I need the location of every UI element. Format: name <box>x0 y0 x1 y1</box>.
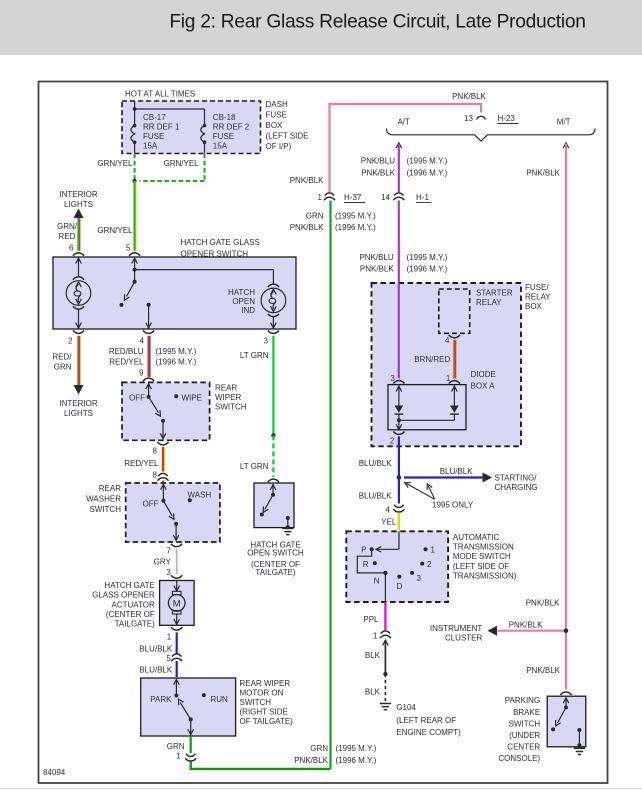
wire PNK/BLU A/T branch upper <box>396 143 402 192</box>
label GRN/YEL at pin 5 <box>97 226 133 235</box>
svg-text:HATCH: HATCH <box>228 288 255 297</box>
label REAR WASHER SWITCH <box>86 484 121 514</box>
svg-text:BRAKE: BRAKE <box>513 708 540 717</box>
svg-text:LT GRN: LT GRN <box>240 351 269 360</box>
contact WIPE <box>174 394 202 403</box>
svg-text:7: 7 <box>166 547 171 556</box>
label GRN/RED <box>57 222 78 241</box>
fuse/relay box <box>372 283 522 446</box>
svg-text:TAILGATE): TAILGATE) <box>115 620 155 629</box>
contact RUN <box>202 693 228 704</box>
junction node GRN/YEL <box>132 179 136 183</box>
svg-text:YEL: YEL <box>381 518 397 527</box>
svg-text:RELAY: RELAY <box>476 298 502 307</box>
label INSTRUMENT CLUSTER <box>430 624 483 643</box>
svg-text:TRANSMISSION): TRANSMISSION) <box>453 571 517 580</box>
label GRN/YEL left <box>97 159 133 168</box>
pin 6 label <box>69 244 74 253</box>
svg-text:PNK/BLK: PNK/BLK <box>526 666 560 675</box>
label REAR WIPER SWITCH <box>215 384 247 412</box>
wiper switch internals <box>146 384 166 439</box>
pin 6 connector arc <box>73 253 84 256</box>
svg-text:FUSE: FUSE <box>143 132 164 141</box>
label RED/GRN <box>52 353 72 372</box>
svg-text:GRN: GRN <box>306 212 324 221</box>
label BRN/RED <box>414 355 450 364</box>
arrow to interior lights (down) <box>74 385 84 395</box>
svg-text:SWITCH: SWITCH <box>240 698 272 707</box>
lamp HATCH OPEN IND <box>261 284 286 328</box>
label GRN PNK/BLK with years bottom <box>294 744 376 765</box>
inline connector 14 H-1 <box>381 193 431 203</box>
wire LT GRN from pin 3 <box>272 336 274 436</box>
svg-text:CB-18: CB-18 <box>213 113 236 122</box>
svg-text:STARTER: STARTER <box>476 289 513 298</box>
hatch gate open switch box <box>254 483 294 528</box>
svg-text:CB-17: CB-17 <box>143 113 166 122</box>
circuit breaker CB-18 RR DEF 2 FUSE 15A <box>201 113 250 153</box>
hatch gate glass opener switch box <box>53 257 296 329</box>
wire RED/YEL into washer switch <box>163 481 164 483</box>
svg-text:OF TAILGATE): OF TAILGATE) <box>240 717 294 726</box>
svg-text:PNK/BLU: PNK/BLU <box>361 157 395 166</box>
svg-text:CENTER: CENTER <box>507 742 540 751</box>
wire BRN/RED <box>454 340 455 379</box>
label AUTOMATIC TRANSMISSION MODE SWITCH (LEFT SIDE OF TRANSMISSION) <box>453 533 517 580</box>
svg-text:1: 1 <box>176 752 181 761</box>
svg-text:BLK: BLK <box>365 688 381 697</box>
svg-text:PNK/BLK: PNK/BLK <box>294 756 328 765</box>
svg-text:WIPE: WIPE <box>182 394 202 403</box>
diode box A pin 3 connector <box>390 374 404 384</box>
dash fuse box <box>122 101 261 154</box>
svg-text:13: 13 <box>464 114 473 123</box>
label INTERIOR LIGHTS bottom <box>59 399 97 418</box>
wire PNK/BLU A/T branch middle <box>398 201 400 285</box>
inline connector 5 <box>166 654 182 663</box>
wire BLK dashed <box>384 674 386 702</box>
bus wire inside fuse box <box>133 101 205 126</box>
wire BLU/BLK to starting/charging <box>404 476 483 478</box>
svg-text:CHARGING: CHARGING <box>495 483 538 492</box>
svg-text:3: 3 <box>417 574 422 583</box>
svg-text:GRN: GRN <box>310 744 328 753</box>
label GRN/YEL right <box>164 159 200 168</box>
svg-text:INSTRUMENT: INSTRUMENT <box>430 624 483 633</box>
svg-text:RED/: RED/ <box>52 353 72 362</box>
mode switch P-N linkage <box>357 549 385 573</box>
wire PNK/BLK M/T branch <box>563 143 569 689</box>
svg-text:BOX A: BOX A <box>471 382 496 391</box>
svg-text:(CENTER OF: (CENTER OF <box>106 610 155 619</box>
svg-text:PNK/BLK: PNK/BLK <box>526 169 560 178</box>
label G104 (LEFT REAR OF ENGINE COMPT) <box>396 703 461 737</box>
svg-text:RUN: RUN <box>211 695 229 704</box>
pin 2 label and connector <box>68 331 84 346</box>
svg-text:(RIGHT SIDE: (RIGHT SIDE <box>240 708 288 717</box>
ground below hatch gate open switch <box>282 528 293 534</box>
svg-text:DIODE: DIODE <box>471 370 496 379</box>
svg-text:LIGHTS: LIGHTS <box>64 409 93 418</box>
svg-text:D: D <box>397 582 403 591</box>
svg-text:RED: RED <box>59 232 76 241</box>
wire LT GRN dashed <box>272 435 274 477</box>
svg-text:OPEN: OPEN <box>232 297 255 306</box>
svg-text:GRN/YEL: GRN/YEL <box>164 159 200 168</box>
wire RED/YEL to connector 8 <box>163 447 164 472</box>
label PNK/BLK left of connector H-37 <box>290 176 324 185</box>
pin 1 connector below actuator <box>167 627 183 641</box>
label PNK/BLK M/T branch <box>526 169 560 178</box>
wire GRN/YEL to switch pin 5 <box>135 181 136 251</box>
svg-text:M/T: M/T <box>557 118 571 127</box>
svg-text:H-37: H-37 <box>344 193 362 202</box>
svg-text:GRY: GRY <box>154 558 172 567</box>
label BLU/BLK below junction <box>359 492 393 501</box>
hatch gate open switch internals <box>260 484 276 516</box>
svg-text:R: R <box>363 560 369 569</box>
wire GRN/RED to pin 6 <box>79 218 80 251</box>
label RED/YEL <box>124 459 159 468</box>
pin 5 label <box>126 244 131 253</box>
inline connector 8 <box>153 471 169 481</box>
svg-text:(LEFT REAR OF: (LEFT REAR OF <box>396 716 456 725</box>
label BLU/BLK horizontal <box>440 467 474 476</box>
svg-text:LIGHTS: LIGHTS <box>64 200 93 209</box>
wire PNK/BLU inside fuse/relay box <box>398 284 400 379</box>
wire PNK/BLK top run <box>330 104 482 192</box>
inline connector 13 H-23 <box>464 114 518 124</box>
opener switch pin 6 internal wire and lamp <box>66 258 91 329</box>
svg-text:(UNDER: (UNDER <box>509 731 540 740</box>
svg-text:ENGINE COMPT): ENGINE COMPT) <box>396 728 461 737</box>
label PPL <box>363 615 379 624</box>
wire BLU/BLK from actuator <box>176 632 178 653</box>
svg-text:(1995 M.Y.): (1995 M.Y.) <box>335 212 376 221</box>
svg-text:PNK/BLK: PNK/BLK <box>526 599 560 608</box>
wire GRN below motor switch <box>190 736 192 753</box>
pin 9 label and connector <box>139 369 154 382</box>
svg-text:HATCH GATE: HATCH GATE <box>104 581 154 590</box>
label PNK/BLK top <box>452 92 486 101</box>
label BLK lower <box>365 688 381 697</box>
svg-text:15A: 15A <box>213 142 228 151</box>
svg-text:GRN/YEL: GRN/YEL <box>97 226 133 235</box>
label FUSE/RELAY BOX <box>525 283 551 311</box>
diode branch right <box>399 385 459 420</box>
svg-text:(1996 M.Y.): (1996 M.Y.) <box>336 756 377 765</box>
pin 4 connector below starter relay <box>445 335 460 345</box>
svg-text:AUTOMATIC: AUTOMATIC <box>453 533 500 542</box>
label PARK <box>150 695 172 704</box>
callout 1995 ONLY with pointer arrows <box>405 483 474 510</box>
label PNK/BLK on branch <box>509 620 543 629</box>
svg-text:(1996 M.Y.): (1996 M.Y.) <box>407 265 448 274</box>
svg-text:BRN/RED: BRN/RED <box>414 355 450 364</box>
label PNK/BLK lower <box>526 666 560 675</box>
wire GRY <box>176 549 178 574</box>
diode box A <box>388 385 466 430</box>
svg-text:REAR: REAR <box>99 484 121 493</box>
diagram number 84094 <box>43 768 66 777</box>
svg-text:PNK/BLK: PNK/BLK <box>452 92 486 101</box>
motor M symbol <box>168 581 185 625</box>
label RED/BLU RED/YEL with years <box>109 347 197 366</box>
svg-text:N: N <box>374 577 380 586</box>
pin 8 connector below wiper switch <box>153 442 169 456</box>
pin 4 label and connector <box>140 331 155 346</box>
svg-text:M: M <box>173 598 181 609</box>
svg-text:HATCH GATE GLASS: HATCH GATE GLASS <box>181 238 260 247</box>
hatch gate glass opener actuator box <box>160 581 195 626</box>
rear wiper switch box <box>122 382 210 440</box>
rear wiper motor on switch box <box>141 678 236 736</box>
svg-text:H-1: H-1 <box>416 193 429 202</box>
contact 1 <box>424 546 436 555</box>
svg-text:REAR WIPER: REAR WIPER <box>240 679 291 688</box>
opener switch blade (open) <box>120 282 135 307</box>
label PARKING BRAKE SWITCH (UNDER CENTER CONSOLE) <box>498 696 540 763</box>
svg-text:2: 2 <box>68 337 73 346</box>
inline connector 1 PPL <box>373 631 391 641</box>
rear washer switch box <box>126 483 220 542</box>
diode box A pin 1 connector <box>446 374 460 384</box>
inline connector 4 YEL <box>386 505 405 515</box>
svg-text:(1996 M.Y.): (1996 M.Y.) <box>407 169 448 178</box>
svg-text:TAILGATE): TAILGATE) <box>255 568 295 577</box>
wire BLU/BLK into motor switch <box>176 661 178 677</box>
svg-text:A/T: A/T <box>397 118 410 127</box>
connector arc above parking brake switch <box>560 692 571 695</box>
svg-text:G104: G104 <box>396 703 416 712</box>
svg-text:14: 14 <box>381 193 390 202</box>
label HATCH GATE GLASS OPENER SWITCH <box>181 238 260 258</box>
svg-text:4: 4 <box>445 336 450 345</box>
label LT GRN lower <box>240 462 269 471</box>
svg-text:3: 3 <box>264 337 269 346</box>
svg-text:2: 2 <box>427 560 432 569</box>
svg-text:H-23: H-23 <box>498 114 516 123</box>
svg-text:BLU/BLK: BLU/BLK <box>139 645 173 654</box>
svg-text:1995 ONLY: 1995 ONLY <box>432 501 474 510</box>
pin 2 connector below diode box <box>390 432 405 446</box>
svg-text:4: 4 <box>386 506 391 515</box>
svg-text:WASH: WASH <box>188 491 212 500</box>
label HATCH GATE OPEN SWITCH (CENTER OF TAILGATE) <box>247 541 304 578</box>
diode branch left <box>395 385 404 430</box>
junction node BLU/BLK <box>397 475 402 480</box>
svg-text:2: 2 <box>390 437 395 446</box>
svg-text:BLU/BLK: BLU/BLK <box>139 666 173 675</box>
svg-text:(1995 M.Y.): (1995 M.Y.) <box>407 157 448 166</box>
svg-text:FUSE: FUSE <box>213 132 234 141</box>
arrow to INSTRUMENT CLUSTER <box>488 626 498 636</box>
svg-text:ACTUATOR: ACTUATOR <box>112 601 155 610</box>
contact WASH <box>188 491 212 503</box>
svg-text:GRN/YEL: GRN/YEL <box>97 159 133 168</box>
svg-text:SWITCH: SWITCH <box>215 403 247 412</box>
motor switch internals <box>174 679 194 735</box>
svg-text:PNK/BLK: PNK/BLK <box>290 223 324 232</box>
svg-text:PARK: PARK <box>150 695 172 704</box>
inline connector 1 GRN <box>176 752 196 762</box>
inline connector 1 H-37 <box>318 193 365 203</box>
svg-text:(LEFT SIDE: (LEFT SIDE <box>266 132 309 141</box>
diagram frame <box>39 82 608 784</box>
svg-text:SWITCH: SWITCH <box>509 719 541 728</box>
svg-text:INTERIOR: INTERIOR <box>59 190 97 199</box>
svg-text:5: 5 <box>166 654 171 663</box>
bottom rule <box>0 788 642 790</box>
parking brake switch ground leg <box>577 728 581 747</box>
svg-text:PNK/BLK: PNK/BLK <box>509 620 543 629</box>
svg-text:OF I/P): OF I/P) <box>266 142 292 151</box>
label HOT AT ALL TIMES <box>125 90 195 99</box>
svg-text:(1995 M.Y.): (1995 M.Y.) <box>156 347 197 356</box>
label PNK/BLU PNK/BLK years upper <box>361 157 448 178</box>
internal bus to hatch open ind lamp <box>135 270 274 285</box>
contact R <box>363 560 377 569</box>
svg-text:(1995 M.Y.): (1995 M.Y.) <box>336 744 377 753</box>
hatch gate open switch ground leg <box>286 516 290 529</box>
wire RED/GRN from pin 2 <box>79 336 80 386</box>
connector arc above hatch gate open switch <box>268 479 279 482</box>
svg-text:(LEFT SIDE OF: (LEFT SIDE OF <box>453 562 509 571</box>
arrow to STARTING/CHARGING <box>483 473 493 483</box>
contact 3 <box>410 571 421 583</box>
label PNK/BLU PNK/BLK years lower <box>359 253 447 274</box>
svg-text:BLU/BLK: BLU/BLK <box>440 467 474 476</box>
svg-text:FUSE/: FUSE/ <box>525 283 549 292</box>
label OFF (wiper) <box>129 394 145 403</box>
svg-text:GRN: GRN <box>167 742 185 751</box>
svg-text:(1996 M.Y.): (1996 M.Y.) <box>156 357 197 366</box>
svg-text:WIPER: WIPER <box>215 393 241 402</box>
wire GRN/YEL dashed from CB-17 <box>134 154 136 180</box>
svg-text:RR DEF 1: RR DEF 1 <box>143 123 180 132</box>
svg-text:1: 1 <box>373 632 378 641</box>
svg-text:RELAY: RELAY <box>525 293 551 302</box>
svg-text:PNK/BLK: PNK/BLK <box>290 176 324 185</box>
svg-text:RED/BLU: RED/BLU <box>109 347 144 356</box>
svg-text:PPL: PPL <box>363 615 379 624</box>
svg-text:OPENER SWITCH: OPENER SWITCH <box>181 249 249 258</box>
wire GRN/YEL dashed from CB-18 <box>140 154 205 181</box>
title bar <box>0 0 642 55</box>
svg-text:HOT AT ALL TIMES: HOT AT ALL TIMES <box>125 90 195 99</box>
label GRN <box>167 742 185 751</box>
A/T M/T split bracket <box>387 118 596 142</box>
starter relay box <box>439 289 470 333</box>
svg-text:BLU/BLK: BLU/BLK <box>359 492 393 501</box>
svg-text:P: P <box>361 546 366 555</box>
wire BLU/BLK to connector 4 <box>398 478 400 504</box>
label DASH FUSE BOX (LEFT SIDE OF I/P) <box>266 100 309 151</box>
svg-text:CONSOLE): CONSOLE) <box>498 754 540 763</box>
svg-text:5: 5 <box>126 244 131 253</box>
pin 5 connector arc <box>129 253 140 256</box>
svg-text:GRN: GRN <box>54 363 72 372</box>
svg-text:RED/YEL: RED/YEL <box>109 357 144 366</box>
svg-text:FUSE: FUSE <box>266 111 287 120</box>
node on LT GRN wire <box>271 433 275 437</box>
automatic transmission mode switch box <box>346 531 448 602</box>
svg-text:PNK/BLK: PNK/BLK <box>361 169 395 178</box>
label PNK/BLK above instrument branch <box>526 599 560 608</box>
contact 2 <box>420 560 432 569</box>
label BLK upper <box>365 651 381 660</box>
parking brake switch internals <box>551 698 569 732</box>
wire GRN to main harness <box>191 762 331 769</box>
svg-text:WASHER: WASHER <box>86 495 121 504</box>
wire PNK/BLK branch to instrument cluster <box>498 630 567 632</box>
label REAR WIPER MOTOR ON SWITCH (RIGHT SIDE OF TAILGATE) <box>240 679 294 726</box>
svg-text:(1995 M.Y.): (1995 M.Y.) <box>407 253 448 262</box>
svg-text:84094: 84094 <box>43 768 66 777</box>
label STARTING/CHARGING <box>495 474 538 493</box>
svg-text:8: 8 <box>153 447 158 456</box>
svg-text:REAR: REAR <box>215 384 237 393</box>
svg-text:BOX: BOX <box>266 121 284 130</box>
svg-text:OFF: OFF <box>143 500 159 509</box>
svg-text:OPEN SWITCH: OPEN SWITCH <box>247 549 304 558</box>
mode switch wiper arm to P <box>376 531 399 552</box>
wire PPL <box>384 602 386 630</box>
opener switch pin 5 internal wire <box>132 258 138 284</box>
label YEL <box>381 518 397 527</box>
svg-text:PARKING: PARKING <box>505 696 540 705</box>
contact N <box>374 571 388 586</box>
wire RED/BLU RED/YEL from pin 4 <box>149 336 150 377</box>
svg-text:6: 6 <box>69 244 74 253</box>
ground G104 <box>380 704 391 710</box>
svg-text:8: 8 <box>153 471 158 480</box>
label BLU/BLK upper <box>139 645 173 654</box>
svg-text:BLK: BLK <box>365 651 381 660</box>
junction node PNK/BLK <box>564 628 569 633</box>
svg-text:(1996 M.Y.): (1996 M.Y.) <box>335 223 376 232</box>
svg-text:1: 1 <box>431 546 436 555</box>
svg-text:PNK/BLK: PNK/BLK <box>360 265 394 274</box>
pin 4 contact and wire <box>146 303 152 329</box>
mode switch output wire <box>384 573 386 602</box>
pin 3 label and connector <box>264 331 279 346</box>
label GRY <box>154 558 172 567</box>
label HATCH GATE GLASS OPENER ACTUATOR (CENTER OF TAILGATE) <box>92 581 155 629</box>
svg-text:STARTING/: STARTING/ <box>495 474 538 483</box>
washer switch internals <box>161 484 179 541</box>
svg-text:BLU/BLK: BLU/BLK <box>359 459 393 468</box>
svg-text:TRANSMISSION: TRANSMISSION <box>453 543 514 552</box>
svg-text:GLASS OPENER: GLASS OPENER <box>92 591 155 600</box>
svg-text:4: 4 <box>140 337 145 346</box>
svg-text:RR DEF 2: RR DEF 2 <box>213 123 250 132</box>
circuit breaker CB-17 RR DEF 1 FUSE 15A <box>131 113 180 153</box>
svg-text:BOX: BOX <box>525 302 543 311</box>
svg-text:Fig 2: Rear Glass Release Circ: Fig 2: Rear Glass Release Circuit, Late … <box>169 12 585 33</box>
svg-text:CLUSTER: CLUSTER <box>445 634 483 643</box>
label OFF (washer) <box>143 500 159 509</box>
svg-text:MOTOR ON: MOTOR ON <box>240 689 284 698</box>
wire BLK solid with arrow <box>383 640 389 674</box>
arrow to interior lights (up) <box>74 209 84 219</box>
svg-text:OFF: OFF <box>129 394 145 403</box>
pin 7 connector below washer switch <box>166 544 182 556</box>
svg-text:SWITCH: SWITCH <box>89 505 121 514</box>
wire GRN main vertical <box>329 201 331 769</box>
svg-text:1: 1 <box>167 633 172 642</box>
svg-text:9: 9 <box>139 369 144 378</box>
